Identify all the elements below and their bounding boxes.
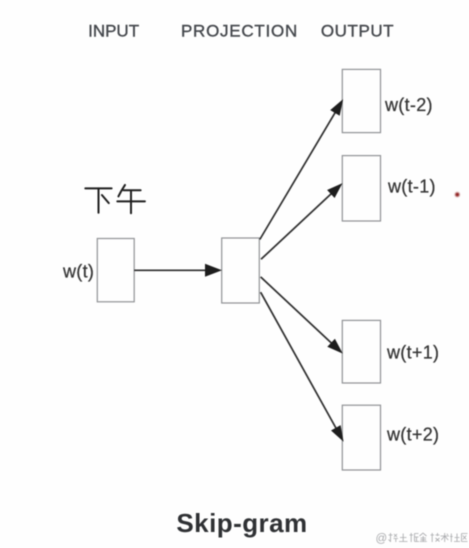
svg-text:@: @ [376,533,388,545]
svg-text:INPUT: INPUT [88,21,139,40]
svg-text:Skip-gram: Skip-gram [176,508,307,538]
svg-text:w(t-1): w(t-1) [387,177,436,197]
svg-text:w(t+2): w(t+2) [386,425,439,445]
svg-text:OUTPUT: OUTPUT [321,21,394,40]
svg-text:w(t-2): w(t-2) [384,95,433,115]
svg-text:w(t): w(t) [62,262,94,282]
svg-text:PROJECTION: PROJECTION [181,21,298,40]
svg-text:w(t+1): w(t+1) [386,343,439,363]
